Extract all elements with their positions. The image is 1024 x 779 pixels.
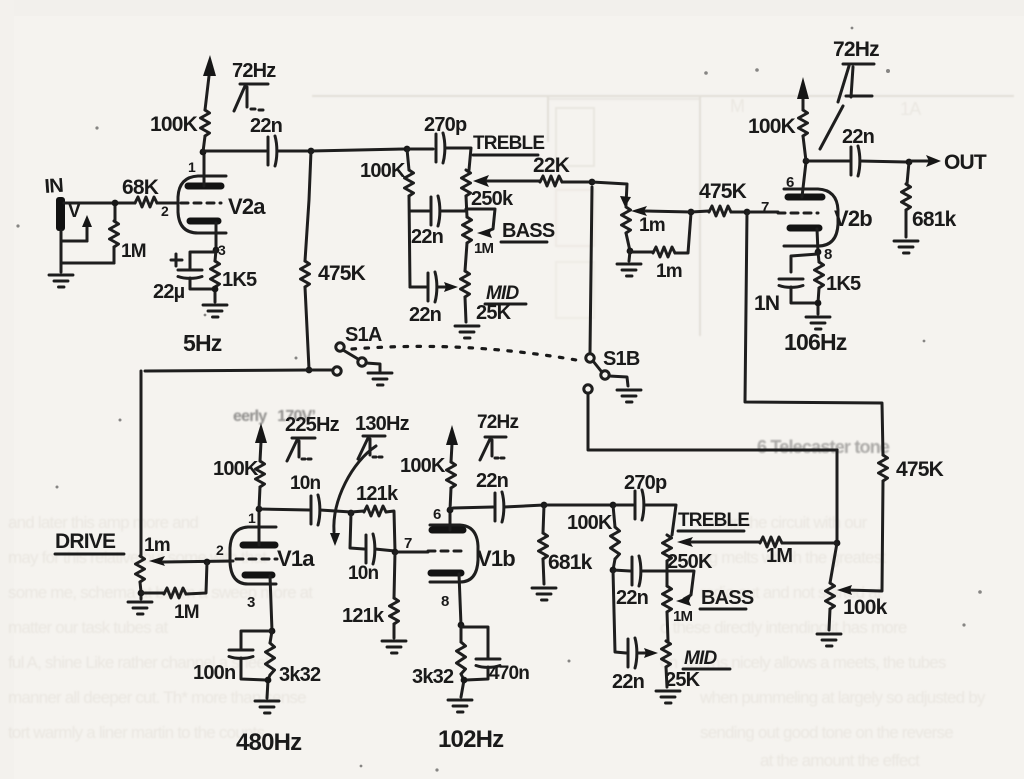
svg-text:3: 3 — [247, 594, 255, 611]
svg-text:475K: 475K — [699, 180, 747, 203]
svg-text:at the amount the effect: at the amount the effect — [760, 751, 920, 770]
svg-text:1M: 1M — [174, 602, 199, 623]
svg-text:480Hz: 480Hz — [236, 729, 302, 756]
svg-text:BASS: BASS — [502, 220, 555, 242]
svg-text:225Hz: 225Hz — [285, 414, 340, 436]
svg-text:72Hz: 72Hz — [833, 38, 879, 61]
svg-text:121k: 121k — [342, 605, 385, 627]
svg-text:1: 1 — [188, 159, 196, 175]
svg-text:470n: 470n — [489, 663, 529, 684]
svg-text:DRIVE: DRIVE — [55, 530, 116, 553]
svg-text:IN: IN — [44, 175, 64, 198]
svg-text:1M: 1M — [766, 545, 792, 567]
svg-text:6 Telecaster tone: 6 Telecaster tone — [757, 437, 890, 457]
svg-text:102Hz: 102Hz — [438, 726, 504, 753]
svg-text:sending out good tone on the r: sending out good tone on the reverse — [700, 723, 953, 742]
svg-text:OUT: OUT — [944, 151, 987, 174]
svg-text:68K: 68K — [122, 176, 159, 199]
svg-text:22µ: 22µ — [153, 281, 185, 303]
svg-text:72Hz: 72Hz — [477, 412, 518, 433]
svg-text:3k32: 3k32 — [412, 666, 454, 688]
svg-text:25K: 25K — [665, 669, 701, 691]
svg-text:100K: 100K — [360, 160, 406, 182]
svg-text:72Hz: 72Hz — [232, 60, 276, 82]
svg-text:MID: MID — [486, 283, 520, 304]
svg-text:475K: 475K — [896, 458, 944, 481]
svg-text:1m: 1m — [144, 535, 170, 556]
svg-text:121k: 121k — [356, 483, 399, 505]
svg-text:V1a: V1a — [277, 546, 315, 571]
svg-text:681k: 681k — [548, 551, 593, 574]
svg-text:matter our task tubes at: matter our task tubes at — [8, 618, 168, 637]
svg-text:5Hz: 5Hz — [183, 330, 222, 356]
svg-text:100K: 100K — [400, 455, 446, 477]
svg-text:22n: 22n — [409, 304, 441, 326]
svg-text:TREBLE: TREBLE — [678, 510, 749, 531]
svg-text:8: 8 — [824, 246, 832, 263]
svg-text:tort warmly a liner martin to: tort warmly a liner martin to the counts — [8, 723, 264, 742]
svg-text:2: 2 — [216, 542, 224, 558]
svg-text:1M: 1M — [673, 608, 693, 625]
svg-text:when pummeling at largely so a: when pummeling at largely so adjusted by — [699, 688, 986, 707]
svg-text:10n: 10n — [290, 473, 321, 494]
svg-text:1K5: 1K5 — [222, 269, 257, 291]
svg-text:100n: 100n — [193, 662, 235, 684]
svg-text:22n: 22n — [250, 115, 282, 137]
svg-text:1m: 1m — [656, 261, 682, 282]
svg-text:6: 6 — [433, 506, 441, 523]
svg-text:1K5: 1K5 — [826, 273, 861, 295]
svg-text:475K: 475K — [318, 262, 366, 285]
svg-text:manner all deeper cut. Th* mo: manner all deeper cut. Th* more than sen… — [8, 688, 306, 707]
svg-text:100K: 100K — [567, 512, 613, 534]
svg-text:TREBLE: TREBLE — [473, 133, 544, 154]
svg-text:1M: 1M — [121, 241, 146, 262]
svg-text:106Hz: 106Hz — [784, 329, 847, 355]
svg-text:22K: 22K — [533, 154, 570, 177]
svg-text:250k: 250k — [471, 188, 514, 210]
svg-text:M: M — [730, 96, 744, 116]
svg-text:1A: 1A — [900, 99, 921, 119]
svg-text:1N: 1N — [754, 292, 779, 315]
svg-text:S1A: S1A — [345, 324, 382, 346]
svg-text:MID: MID — [684, 648, 718, 669]
svg-text:o these directly intending it: o these directly intending it has more — [660, 618, 907, 637]
svg-text:1m: 1m — [639, 215, 665, 236]
svg-text:270p: 270p — [424, 114, 467, 136]
svg-text:6: 6 — [786, 174, 794, 191]
svg-text:100K: 100K — [213, 458, 259, 480]
svg-text:22n: 22n — [616, 587, 648, 609]
svg-text:100k: 100k — [843, 596, 888, 619]
svg-text:8: 8 — [441, 593, 449, 610]
svg-text:681k: 681k — [912, 208, 957, 231]
svg-text:7: 7 — [404, 535, 412, 552]
svg-text:V1b: V1b — [477, 546, 515, 571]
svg-text:3k32: 3k32 — [279, 664, 321, 686]
svg-text:100K: 100K — [748, 115, 796, 138]
svg-text:V2a: V2a — [228, 194, 266, 219]
svg-text:25K: 25K — [476, 302, 512, 324]
svg-text:22n: 22n — [476, 470, 508, 492]
svg-text:10n: 10n — [348, 563, 379, 584]
svg-text:130Hz: 130Hz — [355, 413, 410, 435]
svg-text:S1B: S1B — [603, 348, 640, 370]
svg-text:22n: 22n — [612, 671, 644, 693]
svg-text:BASS: BASS — [701, 587, 754, 609]
svg-text:V2b: V2b — [834, 206, 872, 231]
svg-text:ng melts which the greatest: ng melts which the greatest — [700, 548, 886, 567]
svg-text:1M: 1M — [474, 240, 494, 257]
svg-text:100K: 100K — [150, 113, 198, 136]
svg-text:22n: 22n — [411, 226, 443, 248]
svg-text:22n: 22n — [842, 126, 874, 148]
svg-text:2: 2 — [161, 203, 169, 219]
svg-text:1: 1 — [248, 510, 256, 526]
svg-text:270p: 270p — [624, 472, 667, 494]
